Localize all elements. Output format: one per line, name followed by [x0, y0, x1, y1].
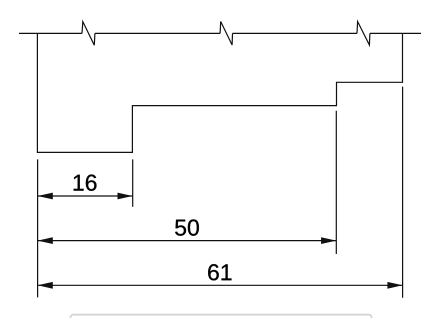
arrowhead 16 left — [38, 193, 53, 200]
arrowhead 16 right — [118, 193, 133, 200]
top line segment 2 — [95, 32, 220, 34]
extension line 61 right — [402, 87, 404, 298]
arrowhead 61 left — [38, 282, 53, 289]
top line segment 4 — [370, 32, 421, 34]
top line segment 3 — [233, 32, 358, 34]
stepped profile outline — [37, 33, 402, 152]
arrowhead 50 left — [38, 237, 53, 244]
dimension text 61 — [208, 264, 231, 280]
dimension line 16 — [38, 195, 133, 197]
dimension line 61 — [38, 284, 403, 286]
break symbol 2 — [220, 22, 232, 46]
break symbol 3 — [357, 22, 370, 46]
bottom input box top edge — [70, 315, 371, 318]
arrowhead 61 right — [387, 282, 402, 289]
dimension text 16 — [74, 175, 97, 191]
dimension line 50 — [38, 240, 337, 242]
top line segment 1 — [19, 32, 82, 34]
extension line left — [37, 159, 39, 297]
extension line 16 right — [132, 159, 134, 206]
arrowhead 50 right — [321, 237, 336, 244]
dimension text 50 — [175, 219, 199, 235]
break symbol 1 — [82, 22, 95, 46]
extension line 50 right — [335, 111, 337, 254]
